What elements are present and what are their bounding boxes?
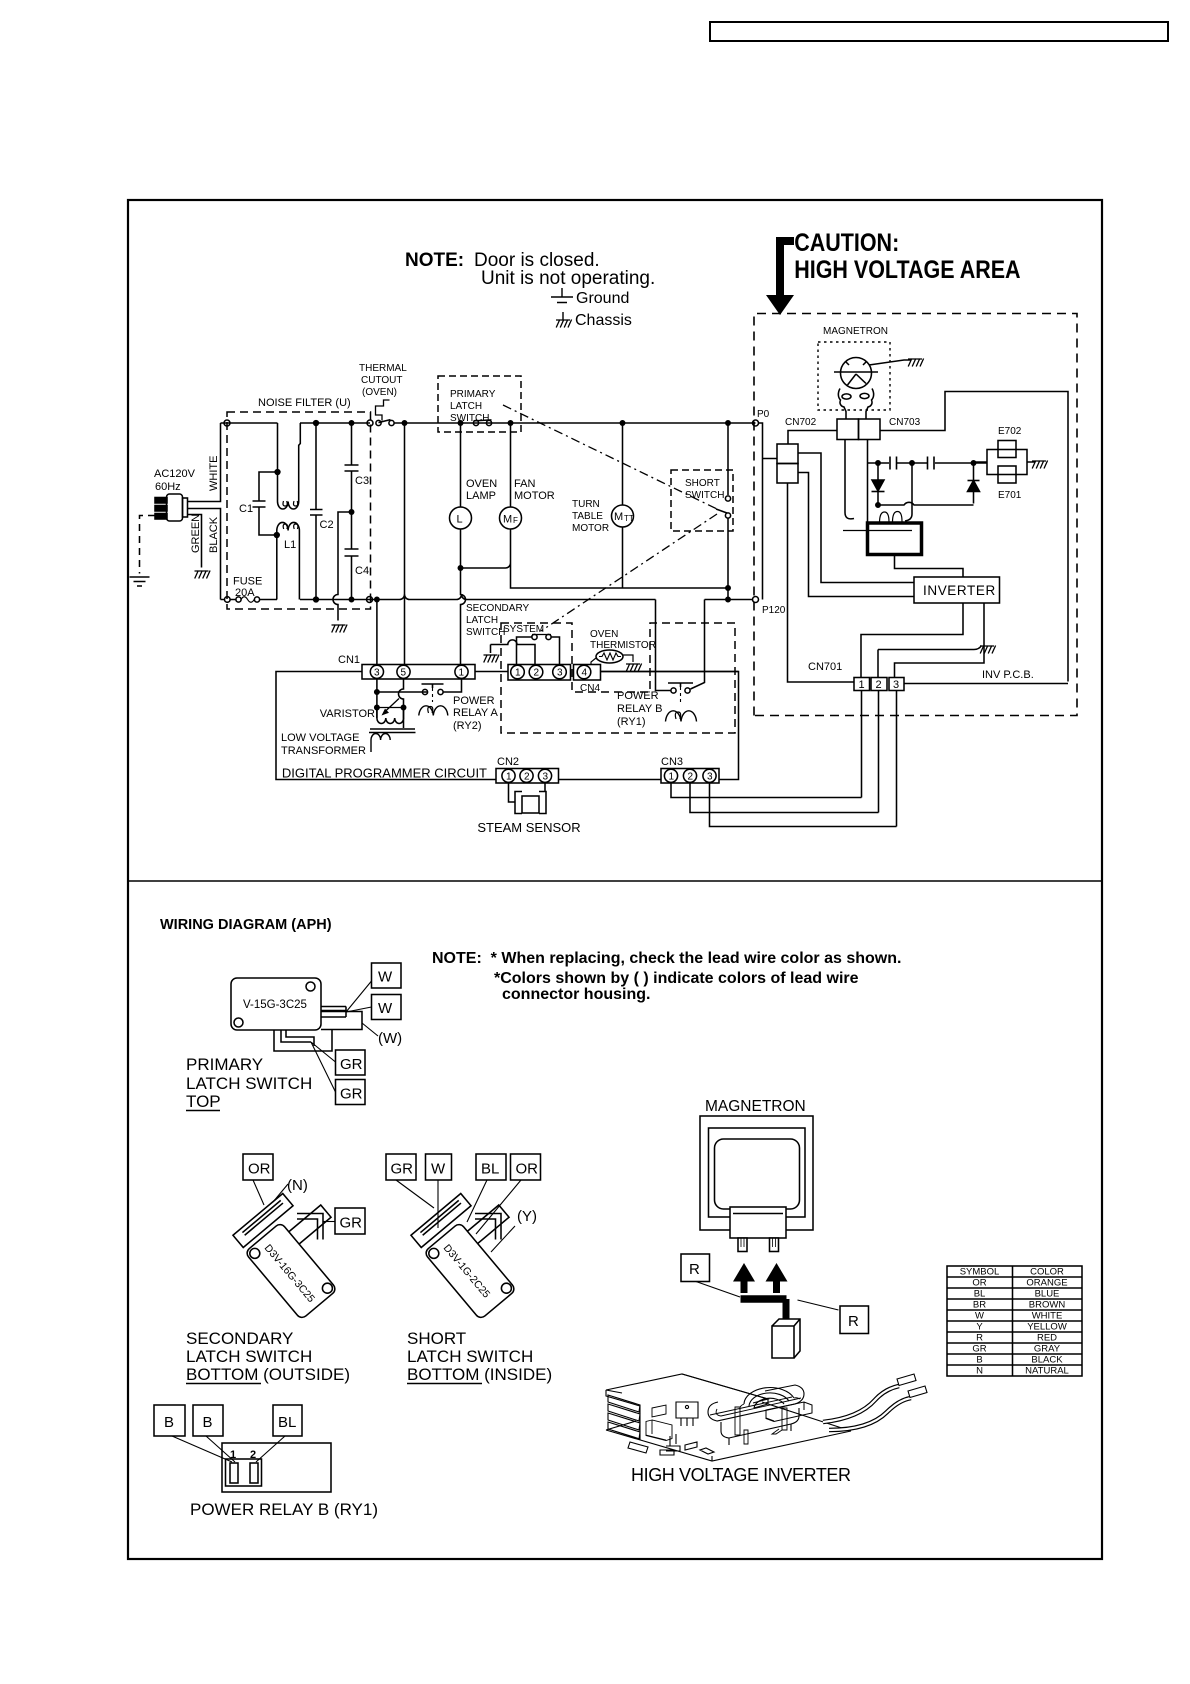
inverter bottom wires <box>861 603 984 678</box>
short latch switch figure <box>386 1154 552 1384</box>
CN702 to stack wire <box>788 431 837 445</box>
leaders <box>396 1180 521 1234</box>
relay A armature <box>422 684 444 688</box>
primary latch contacts <box>473 420 478 425</box>
svg-text:BL: BL <box>278 1414 296 1431</box>
svg-text:GR: GR <box>340 1086 363 1103</box>
svg-text:connector housing.: connector housing. <box>502 986 650 1003</box>
CN1 pin3 wire from neutral bus <box>376 600 378 665</box>
svg-text:C2: C2 <box>320 519 334 531</box>
svg-text:CN3: CN3 <box>661 756 683 768</box>
junction dot pin3/neutral <box>375 597 379 601</box>
svg-text:SHORT: SHORT <box>685 478 720 489</box>
svg-text:E701: E701 <box>998 490 1022 501</box>
svg-text:CUTOUT: CUTOUT <box>361 375 402 386</box>
svg-text:BOTTOM (OUTSIDE): BOTTOM (OUTSIDE) <box>186 1365 350 1384</box>
svg-text:Chassis: Chassis <box>575 312 632 329</box>
svg-text:P120: P120 <box>762 605 786 616</box>
slots <box>226 1459 262 1486</box>
high voltage inverter figure <box>606 1374 927 1485</box>
svg-text:1: 1 <box>506 772 512 783</box>
svg-text:THERMISTOR: THERMISTOR <box>590 640 656 651</box>
svg-text:MAGNETRON: MAGNETRON <box>705 1098 806 1115</box>
svg-text:POWER RELAY B (RY1): POWER RELAY B (RY1) <box>190 1500 378 1519</box>
secondary latch system dashed outline <box>501 623 735 733</box>
svg-text:LAMP: LAMP <box>466 490 496 502</box>
connector block 3d <box>772 1319 800 1358</box>
svg-text:NOTE: * When replacing, check: NOTE: * When replacing, check the lead w… <box>432 950 901 967</box>
magnetron figure <box>681 1098 869 1358</box>
svg-text:LOW VOLTAGE: LOW VOLTAGE <box>281 732 359 744</box>
diode 1 <box>872 463 884 505</box>
G1: frame and header <box>128 22 1168 1559</box>
svg-text:INV P.C.B.: INV P.C.B. <box>982 669 1034 681</box>
svg-text:F: F <box>513 516 518 525</box>
body <box>231 978 321 1030</box>
CN701 pin tails <box>862 691 897 827</box>
svg-text:R: R <box>976 1333 983 1344</box>
svg-text:L: L <box>457 514 463 526</box>
svg-text:LATCH SWITCH: LATCH SWITCH <box>407 1347 533 1366</box>
low voltage transformer <box>377 708 404 719</box>
G5: bottom wiring diagram <box>154 917 1082 1519</box>
svg-text:2: 2 <box>688 772 694 783</box>
stack to inverter wires <box>798 453 914 597</box>
relay A contacts <box>422 689 427 694</box>
wire black: plug to bottom bus <box>188 509 221 600</box>
primary latch switch dashed box <box>438 376 521 432</box>
bobbin block <box>766 1402 812 1422</box>
leaders <box>253 1180 288 1205</box>
svg-text:(OVEN): (OVEN) <box>362 387 397 398</box>
svg-text:20A: 20A <box>235 587 255 599</box>
svg-text:N: N <box>976 1366 983 1377</box>
svg-text:Y: Y <box>976 1322 983 1333</box>
svg-text:SWITCH: SWITCH <box>685 490 724 501</box>
svg-text:LATCH: LATCH <box>466 615 498 626</box>
ground legend symbol <box>551 288 573 303</box>
oven lamp branch <box>460 423 462 507</box>
R box right <box>840 1306 869 1334</box>
Y-cap chassis tap <box>333 512 352 621</box>
capacitor C2 <box>310 510 323 516</box>
wire: neutral bus segments with hops <box>221 595 656 600</box>
svg-text:3: 3 <box>707 772 713 783</box>
svg-text:SYSTEM: SYSTEM <box>503 624 544 635</box>
svg-text:MOTOR: MOTOR <box>514 490 555 502</box>
neutral bus to relay B and P120 <box>656 600 671 691</box>
chassis (green) <box>195 571 211 579</box>
svg-text:E702: E702 <box>998 426 1022 437</box>
label PRIMARY LATCH SWITCH <box>450 389 496 424</box>
svg-text:SECONDARY: SECONDARY <box>466 603 529 614</box>
svg-text:W: W <box>378 1000 393 1017</box>
svg-text:SWITCH: SWITCH <box>466 627 505 638</box>
svg-text:MOTOR: MOTOR <box>572 523 609 534</box>
svg-text:W: W <box>975 1311 984 1322</box>
svg-text:C1: C1 <box>239 503 253 515</box>
svg-text:BR: BR <box>973 1300 986 1311</box>
svg-text:3: 3 <box>557 668 563 679</box>
svg-text:OR: OR <box>972 1278 986 1289</box>
svg-text:THERMAL: THERMAL <box>359 363 407 374</box>
thermal cutout blade <box>379 420 391 423</box>
svg-text:M: M <box>503 514 512 526</box>
wires (outlined) <box>823 1386 911 1430</box>
svg-text:3: 3 <box>374 668 380 679</box>
port circle on left edge of filter <box>225 597 231 603</box>
transformer to inverter wire <box>895 555 964 578</box>
svg-text:B: B <box>203 1414 213 1431</box>
svg-text:(Y): (Y) <box>517 1208 537 1225</box>
svg-text:CN4: CN4 <box>580 683 600 694</box>
svg-text:1: 1 <box>859 679 865 691</box>
leaders to W boxes <box>346 981 372 1012</box>
svg-text:CAUTION:: CAUTION: <box>794 228 899 256</box>
OR box <box>243 1154 273 1180</box>
CN702 CN703 connector blocks <box>837 419 859 440</box>
HV transformer box <box>868 523 922 555</box>
junction dot lamp/fan neutral <box>458 566 462 570</box>
svg-text:4: 4 <box>582 668 588 679</box>
svg-text:LATCH SWITCH: LATCH SWITCH <box>186 1347 312 1366</box>
caution arrow <box>766 237 794 315</box>
connector stack <box>777 444 798 464</box>
inverter chassis <box>878 646 982 650</box>
svg-text:1: 1 <box>515 668 521 679</box>
svg-text:TRANSFORMER: TRANSFORMER <box>281 745 366 757</box>
fuse F1 contact circles <box>236 597 241 602</box>
svg-text:Ground: Ground <box>576 290 629 307</box>
P120 port <box>753 597 759 603</box>
body <box>245 1222 338 1320</box>
svg-text:R: R <box>848 1313 859 1330</box>
junction dots short-switch/neutral <box>726 586 730 590</box>
CN3 connector <box>661 769 719 784</box>
svg-text:BLACK: BLACK <box>208 516 220 553</box>
bent terminal <box>475 1214 501 1240</box>
BL box <box>476 1154 506 1180</box>
relay outline <box>222 1443 331 1492</box>
wiring to CN4 pins <box>517 637 533 665</box>
svg-text:C4: C4 <box>355 565 369 577</box>
transistor pair <box>676 1402 698 1426</box>
symbol color table <box>947 1266 1082 1377</box>
label FUSE 20A <box>233 576 262 600</box>
svg-text:W: W <box>431 1161 446 1178</box>
port circle on right edge of filter <box>367 597 373 603</box>
steam sensor <box>509 783 546 802</box>
G2: NOTE block <box>405 250 655 329</box>
svg-text:FUSE: FUSE <box>233 576 262 588</box>
svg-text:2: 2 <box>524 772 530 783</box>
svg-text:OR: OR <box>248 1161 271 1178</box>
thick arrows <box>733 1263 755 1282</box>
standoffs <box>735 1407 748 1444</box>
svg-text:SWITCH: SWITCH <box>450 413 489 424</box>
svg-text:BL: BL <box>974 1289 986 1300</box>
svg-text:GR: GR <box>340 1056 363 1073</box>
svg-text:HIGH VOLTAGE AREA: HIGH VOLTAGE AREA <box>794 255 1021 283</box>
svg-text:TURN: TURN <box>572 499 600 510</box>
svg-text:NOTE:: NOTE: <box>405 250 464 271</box>
svg-text:60Hz: 60Hz <box>155 481 181 493</box>
svg-text:1: 1 <box>669 772 675 783</box>
bent terminal inside <box>281 1030 314 1046</box>
svg-text:HIGH VOLTAGE INVERTER: HIGH VOLTAGE INVERTER <box>631 1465 851 1485</box>
svg-text:OVEN: OVEN <box>590 629 618 640</box>
noise filter dashed box <box>227 412 371 609</box>
W box <box>426 1154 452 1180</box>
svg-text:RELAY A: RELAY A <box>453 707 499 719</box>
(W) plate <box>321 1012 362 1030</box>
magnetron symbol <box>841 358 872 389</box>
CN3 to CN701 wires <box>671 783 897 827</box>
svg-text:INVERTER: INVERTER <box>923 583 996 598</box>
CN4 pin4 wire to DPC right edge <box>601 671 739 673</box>
svg-text:*Colors shown by ( ) indicate: *Colors shown by ( ) indicate colors of … <box>494 970 859 987</box>
svg-text:B: B <box>164 1414 174 1431</box>
secondary latch contacts <box>532 634 537 639</box>
fuse squiggle <box>241 597 254 603</box>
primary latch switch figure <box>186 963 402 1111</box>
lamp to CN1 pin1 wire (hops neutral bus) <box>461 568 466 665</box>
relay A coil <box>419 706 448 716</box>
HV area dashed box <box>754 314 1077 716</box>
chassis legend symbol <box>556 320 572 328</box>
magnetron base <box>838 389 873 420</box>
capacitor C3 <box>345 465 359 471</box>
G4: top schematic <box>130 314 1078 836</box>
svg-text:R: R <box>689 1261 700 1278</box>
OR box <box>511 1154 541 1180</box>
GR box 2 <box>336 1080 366 1105</box>
body <box>424 1222 517 1320</box>
top-right title box <box>710 22 1168 41</box>
varistor symbol <box>377 699 404 713</box>
junction dot C1/L1 <box>274 533 279 538</box>
bent terminal to GR <box>297 1214 323 1240</box>
svg-text:2: 2 <box>534 668 540 679</box>
svg-text:SECONDARY: SECONDARY <box>186 1329 293 1348</box>
note block <box>432 950 901 1003</box>
svg-text:GR: GR <box>972 1344 986 1355</box>
thermal cutout symbol <box>376 400 390 421</box>
svg-text:POWER: POWER <box>617 690 659 702</box>
svg-text:STEAM SENSOR: STEAM SENSOR <box>477 820 580 835</box>
B box 2 <box>193 1405 223 1436</box>
svg-text:OR: OR <box>516 1161 539 1178</box>
pins right <box>772 1408 787 1434</box>
svg-text:1: 1 <box>230 1449 236 1461</box>
GR box <box>386 1154 416 1180</box>
svg-text:VARISTOR: VARISTOR <box>320 708 375 720</box>
svg-text:RELAY B: RELAY B <box>617 703 662 715</box>
svg-text:CN703: CN703 <box>889 417 921 428</box>
svg-text:WHITE: WHITE <box>208 456 220 491</box>
fan neutral wire <box>461 529 729 588</box>
BL box <box>273 1405 302 1436</box>
wire white: plug to top bus <box>188 423 221 502</box>
magnetron dotted box <box>818 342 890 410</box>
svg-text:CN1: CN1 <box>338 654 360 666</box>
door linkage dash-dot lines <box>503 405 717 509</box>
svg-text:NATURAL: NATURAL <box>1025 1366 1069 1377</box>
earth ground <box>130 577 150 586</box>
svg-text:2: 2 <box>876 679 882 691</box>
svg-text:SHORT: SHORT <box>407 1329 466 1348</box>
HV caps line <box>868 462 987 464</box>
wire connectors <box>897 1374 927 1398</box>
C2 branch <box>315 423 317 600</box>
secondary latch switch figure <box>186 1154 365 1384</box>
svg-text:POWER: POWER <box>453 695 495 707</box>
svg-text:RED: RED <box>1037 1333 1057 1344</box>
turntable branch <box>622 423 624 505</box>
svg-text:Unit is not operating.: Unit is not operating. <box>481 268 655 289</box>
svg-text:BOTTOM (INSIDE): BOTTOM (INSIDE) <box>407 1365 552 1384</box>
power relay B <box>671 688 676 693</box>
diode 2 (E701 branch) <box>968 463 980 504</box>
transformer coil top <box>744 1388 794 1404</box>
fan motor circle <box>500 507 522 529</box>
INVERTER box <box>914 577 1000 603</box>
fan motor branch <box>510 423 512 507</box>
svg-text:SYMBOL: SYMBOL <box>960 1267 1000 1278</box>
svg-text:WIRING DIAGRAM (APH): WIRING DIAGRAM (APH) <box>160 917 332 933</box>
svg-text:(RY1): (RY1) <box>617 716 646 728</box>
svg-text:FAN: FAN <box>514 478 535 490</box>
svg-text:BLACK: BLACK <box>1031 1355 1063 1366</box>
caption <box>186 1329 350 1384</box>
svg-text:TT: TT <box>624 514 634 523</box>
P0 port <box>753 420 759 426</box>
svg-text:(RY2): (RY2) <box>453 720 482 732</box>
R box left <box>681 1254 710 1282</box>
magnetron chassis lead <box>869 360 911 365</box>
svg-text:2: 2 <box>250 1449 256 1461</box>
svg-text:BLUE: BLUE <box>1035 1289 1060 1300</box>
cap chain vertical to transformer <box>905 463 912 521</box>
W box 2 <box>372 995 402 1020</box>
choke L1 lower winding <box>277 522 300 599</box>
svg-text:MAGNETRON: MAGNETRON <box>823 326 888 337</box>
svg-text:(W): (W) <box>378 1030 402 1047</box>
B box 1 <box>154 1405 185 1436</box>
svg-text:P0: P0 <box>757 409 770 420</box>
AC plug <box>155 494 188 521</box>
W box 1 <box>372 963 402 988</box>
small components <box>628 1442 714 1455</box>
P0 to connector stack wires <box>759 423 778 600</box>
svg-text:GR: GR <box>391 1161 414 1178</box>
svg-text:M: M <box>614 511 623 523</box>
section divider <box>128 880 1102 882</box>
short switch dashed box <box>671 470 733 531</box>
svg-text:NOISE FILTER (U): NOISE FILTER (U) <box>258 397 351 409</box>
capacitor C4 <box>345 549 359 556</box>
plates <box>411 1193 471 1247</box>
svg-text:DIGITAL PROGRAMMER CIRCUIT: DIGITAL PROGRAMMER CIRCUIT <box>282 766 487 781</box>
capacitor C1 <box>253 501 277 535</box>
svg-text:(N): (N) <box>287 1177 308 1194</box>
svg-text:3: 3 <box>893 679 899 691</box>
svg-text:W: W <box>378 969 393 986</box>
CN701 pin3 to right edge <box>904 683 1068 685</box>
svg-text:CN702: CN702 <box>785 417 817 428</box>
DPC box <box>276 672 739 780</box>
oven lamp circle <box>450 507 472 529</box>
leaders to GR boxes <box>311 1042 336 1092</box>
svg-text:B: B <box>976 1355 982 1366</box>
CN1 pin1 wire to relay A contact <box>443 679 462 692</box>
svg-text:BROWN: BROWN <box>1029 1300 1066 1311</box>
power relay B figure <box>154 1405 378 1519</box>
wire green: plug to chassis <box>188 515 202 568</box>
svg-text:5: 5 <box>401 668 407 679</box>
svg-text:LATCH SWITCH: LATCH SWITCH <box>186 1074 312 1093</box>
svg-text:PRIMARY: PRIMARY <box>450 389 496 400</box>
CN701 connector <box>854 678 870 691</box>
GR box <box>335 1208 365 1234</box>
caption <box>186 1055 312 1111</box>
stack to CN701 pin1 wire <box>788 483 855 682</box>
heatsink <box>606 1374 768 1403</box>
C3 C4 branch <box>351 423 353 600</box>
right terminal <box>321 1007 346 1018</box>
oven thermistor <box>596 650 623 663</box>
varistor network <box>377 679 404 728</box>
CN2 connector <box>496 769 559 784</box>
transformer body <box>708 1385 804 1421</box>
svg-text:AC120V: AC120V <box>154 468 196 480</box>
svg-text:TOP: TOP <box>186 1092 221 1111</box>
svg-text:TABLE: TABLE <box>572 511 603 522</box>
leaders <box>696 1282 839 1311</box>
dashed wire to earth <box>140 516 156 574</box>
svg-text:YELLOW: YELLOW <box>1027 1322 1067 1333</box>
label THERMAL CUTOUT (OVEN) <box>359 363 407 398</box>
svg-text:GR: GR <box>340 1215 363 1232</box>
CN703 wire right <box>880 392 1068 682</box>
GR box 1 <box>336 1050 366 1075</box>
hot bus (top) <box>221 422 756 424</box>
turntable motor circle <box>612 505 634 527</box>
plug tab <box>730 1207 786 1238</box>
wire CN1 pin1 to CN4 <box>475 671 508 673</box>
choke L1 upper winding <box>278 423 301 509</box>
svg-text:CN701: CN701 <box>808 661 842 673</box>
svg-text:PRIMARY: PRIMARY <box>186 1055 263 1074</box>
magnetron filament wires down <box>845 440 868 524</box>
G3: CAUTION block <box>766 228 1021 315</box>
plates <box>233 1193 293 1247</box>
caption <box>407 1329 552 1384</box>
outer frame <box>128 200 1102 1559</box>
bus port circles <box>224 420 230 426</box>
svg-text:CN2: CN2 <box>497 756 519 768</box>
svg-text:3: 3 <box>543 772 549 783</box>
svg-text:L1: L1 <box>284 539 296 551</box>
svg-text:BL: BL <box>481 1161 499 1178</box>
(W) leader and label <box>362 1023 378 1036</box>
CN1 pin5 wire from hot bus (hops neutral) <box>404 423 406 665</box>
E702 E701 assembly <box>987 450 1027 475</box>
short switch branch <box>727 423 729 495</box>
svg-text:GREEN: GREEN <box>190 514 202 553</box>
svg-text:V-15G-3C25: V-15G-3C25 <box>243 999 307 1011</box>
leaders <box>172 1436 285 1462</box>
